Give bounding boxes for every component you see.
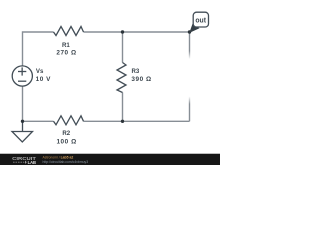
ground: [12, 121, 33, 142]
resistor R2 100 Ohm (horizontal, bottom): [54, 116, 84, 125]
wire top: R1 to out node: [84, 31, 190, 33]
svg-text:270 Ω: 270 Ω: [56, 50, 76, 57]
svg-text:out: out: [195, 16, 206, 25]
wire top: left corner to R1: [23, 32, 54, 66]
watermark logo dashes: [13, 161, 24, 163]
watermark logo bolt: [25, 160, 27, 164]
svg-text:10 V: 10 V: [36, 76, 52, 83]
voltage source Vs (circle with plus/minus): [12, 66, 32, 86]
svg-text:100 Ω: 100 Ω: [56, 138, 76, 145]
svg-text:390 Ω: 390 Ω: [131, 76, 151, 83]
svg-text:http://circuitlab.com/c4vbmuy3: http://circuitlab.com/c4vbmuy3: [43, 160, 89, 164]
wire right: open stub up from bottom-right corner: [189, 97, 191, 122]
wire right: out node stub down (open): [189, 32, 191, 59]
svg-text:Vs: Vs: [36, 68, 44, 75]
wire middle: top node to R3: [122, 32, 124, 63]
svg-text:R3: R3: [132, 68, 140, 75]
wire middle: R3 to bottom node: [122, 93, 124, 122]
junction dot at bottom middle node: [121, 120, 124, 123]
watermark bar: [0, 154, 220, 165]
net flag out: pointer: [189, 24, 199, 33]
svg-text:LAB: LAB: [28, 160, 36, 165]
svg-text:R2: R2: [62, 130, 70, 137]
resistor R3 390 Ohm (vertical, middle): [117, 63, 126, 93]
wire left: source bottom to ground junction: [22, 86, 24, 121]
junction dot at out node: [188, 30, 191, 33]
junction dot at top middle node: [121, 30, 124, 33]
wire bottom: ground junction to R2: [23, 120, 54, 122]
wire bottom: R2 to bottom-right corner: [84, 120, 190, 122]
svg-text:R1: R1: [62, 42, 70, 49]
net flag out: box: [193, 12, 208, 27]
resistor R1 270 Ohm (horizontal, top): [54, 27, 84, 36]
junction dot at ground node: [21, 120, 24, 123]
